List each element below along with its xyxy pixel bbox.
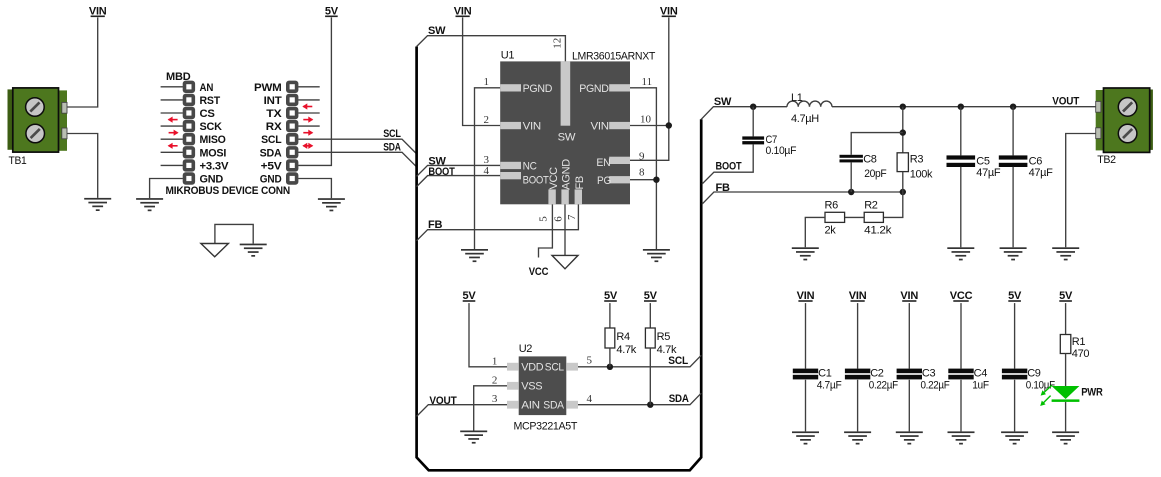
svg-text:SW: SW xyxy=(558,132,576,144)
wire C8 bottom to FB xyxy=(850,162,852,192)
wire 5V to R1 xyxy=(1065,303,1067,334)
power flag VIN (C2) xyxy=(849,290,867,302)
svg-text:R3: R3 xyxy=(910,154,924,166)
svg-text:C9: C9 xyxy=(1027,368,1041,380)
svg-text:0.22µF: 0.22µF xyxy=(921,379,951,391)
svg-text:CS: CS xyxy=(200,108,215,120)
arrow SCL/SDA red both xyxy=(302,143,313,149)
svg-text:2: 2 xyxy=(492,374,498,386)
wire net FB to U1 pin 7 xyxy=(417,204,579,240)
wire net SW top to U1 pin 12 xyxy=(417,36,566,62)
svg-text:C8: C8 xyxy=(863,154,877,166)
capacitor C6 xyxy=(999,155,1028,167)
svg-text:C6: C6 xyxy=(1029,155,1043,167)
svg-text:BOOT: BOOT xyxy=(716,161,742,173)
ground (C1) xyxy=(792,431,819,444)
wire TB1 pin 2 to ground xyxy=(67,134,98,198)
connector MIKROBUS DEVICE CONN right header xyxy=(286,81,298,185)
svg-text:47µF: 47µF xyxy=(976,167,1001,179)
wire net VOUT to U2 pin 3 AIN xyxy=(417,405,507,417)
svg-text:U1: U1 xyxy=(501,49,515,61)
arrow INT/TX red left xyxy=(302,103,312,109)
wire header-left pin MOSI xyxy=(161,151,183,153)
svg-text:3: 3 xyxy=(492,393,498,405)
svg-text:PWR: PWR xyxy=(1081,387,1103,399)
svg-text:7: 7 xyxy=(566,214,578,220)
wire header INT stub xyxy=(298,99,320,101)
svg-text:4: 4 xyxy=(484,165,490,177)
terminal block TB1 xyxy=(8,88,68,152)
ground (C9) xyxy=(1001,431,1028,444)
svg-text:4.7k: 4.7k xyxy=(616,344,636,356)
svg-text:4.7µF: 4.7µF xyxy=(817,379,842,391)
svg-text:VDD: VDD xyxy=(521,362,543,374)
svg-text:VOUT: VOUT xyxy=(1052,95,1079,107)
capacitor C7 xyxy=(742,136,764,144)
wire 5V to C9 xyxy=(1014,303,1016,369)
svg-text:SDA: SDA xyxy=(260,147,282,159)
capacitor C5 xyxy=(947,155,976,167)
svg-text:0.22µF: 0.22µF xyxy=(869,379,899,391)
svg-text:NC: NC xyxy=(523,161,537,173)
svg-text:RST: RST xyxy=(200,95,221,107)
junction C8 bottom xyxy=(848,189,854,195)
svg-text:MCP3221A5T: MCP3221A5T xyxy=(514,421,578,433)
wire U1 pin 10 VIN stub xyxy=(630,125,669,127)
wire C5 bottom to ground xyxy=(960,167,962,248)
power flag 5V (R5) xyxy=(644,290,658,302)
ground (C6) xyxy=(1000,247,1027,260)
earth ground (AGND) xyxy=(552,255,578,268)
svg-text:C1: C1 xyxy=(818,368,832,380)
svg-text:4: 4 xyxy=(587,393,593,405)
svg-text:VIN: VIN xyxy=(523,120,542,132)
svg-text:SCK: SCK xyxy=(200,121,223,133)
ground (LED) xyxy=(1052,431,1079,444)
svg-text:+3.3V: +3.3V xyxy=(200,160,230,172)
svg-text:PGND: PGND xyxy=(523,83,553,95)
wire U1 pin 8 PG stub xyxy=(630,179,656,181)
svg-text:C2: C2 xyxy=(870,368,884,380)
svg-text:1: 1 xyxy=(484,76,490,88)
arrow RX/SCL red right xyxy=(303,130,313,136)
ground (R6) xyxy=(792,247,819,260)
svg-text:SDA: SDA xyxy=(383,141,401,153)
power flag 5V (R4) xyxy=(604,290,618,302)
svg-text:+5V: +5V xyxy=(261,160,283,172)
svg-text:PGND: PGND xyxy=(579,83,609,95)
arrow SCK/MISO red right xyxy=(169,130,179,136)
svg-text:C4: C4 xyxy=(974,368,988,380)
svg-text:5: 5 xyxy=(587,355,593,367)
svg-text:L1: L1 xyxy=(791,92,803,104)
svg-text:41.2k: 41.2k xyxy=(864,224,892,236)
ground (U1 right) xyxy=(643,249,670,262)
ground (TB2) xyxy=(1052,247,1079,260)
wire net BOOT from border to C7 xyxy=(702,145,753,185)
capacitor C9 xyxy=(1002,369,1027,380)
TB2 screw 2 xyxy=(1118,124,1137,143)
capacitor C3 xyxy=(897,369,922,380)
resistor R4 xyxy=(605,328,615,348)
svg-text:R1: R1 xyxy=(1072,336,1086,348)
svg-text:EN: EN xyxy=(596,157,610,169)
wire C4 to ground xyxy=(960,380,962,432)
junction R3 bottom / FB xyxy=(900,189,906,195)
LED emission arrows xyxy=(1040,385,1052,406)
wire 5V to U2 pin 1 VDD xyxy=(469,303,507,367)
svg-text:VIN: VIN xyxy=(591,120,610,132)
IC U1 LMR36015ARNXT xyxy=(500,61,630,204)
svg-text:470: 470 xyxy=(1072,348,1090,360)
power flag VIN (U1) xyxy=(454,5,472,17)
svg-text:SW: SW xyxy=(714,96,732,108)
arrow MISO/MOSI red left xyxy=(168,143,178,149)
wire net SW out of border to L1 and VOUT xyxy=(701,107,787,120)
junction R5/SDA xyxy=(647,402,653,408)
svg-text:TB2: TB2 xyxy=(1097,154,1116,166)
svg-text:0.10µF: 0.10µF xyxy=(766,145,797,157)
wire VIN to C3 xyxy=(908,303,910,369)
wire SW to C8/R3 xyxy=(902,107,904,153)
wire U2 pin 5 SCL to border xyxy=(578,355,701,367)
board outline (click module boundary) xyxy=(417,47,702,471)
capacitor C8 xyxy=(840,155,863,163)
wire R4 to SCL xyxy=(609,348,611,367)
svg-text:PWM: PWM xyxy=(254,82,282,94)
wire C1 to ground xyxy=(805,380,807,432)
terminal block TB2 xyxy=(1096,88,1153,152)
svg-text:MIKROBUS DEVICE CONN: MIKROBUS DEVICE CONN xyxy=(166,185,291,197)
svg-text:RX: RX xyxy=(266,121,283,133)
wire VIN to C2 xyxy=(857,303,859,369)
svg-text:TB1: TB1 xyxy=(9,155,27,167)
resistor R3 xyxy=(897,153,908,172)
ground (U1 pin1) xyxy=(461,249,488,262)
junction R4/SCL xyxy=(607,364,613,370)
svg-text:VCC: VCC xyxy=(529,266,549,278)
svg-text:GND: GND xyxy=(260,174,282,186)
wire U2 pin 2 VSS to ground xyxy=(474,386,507,431)
svg-text:VIN: VIN xyxy=(660,5,678,17)
svg-text:AIN: AIN xyxy=(521,400,540,412)
svg-text:FB: FB xyxy=(428,219,443,231)
wire 5V to R5 xyxy=(649,303,651,328)
connector MIKROBUS DEVICE CONN left header xyxy=(183,81,195,185)
svg-text:C3: C3 xyxy=(922,368,936,380)
wire VCC to C4 xyxy=(960,303,962,369)
capacitor C4 xyxy=(948,369,973,380)
earth ground (triangle) xyxy=(201,244,229,257)
wire 5V to R4 xyxy=(609,303,611,328)
svg-text:GND: GND xyxy=(200,174,224,186)
power flag VIN (C3) xyxy=(900,290,918,302)
svg-text:6: 6 xyxy=(553,216,565,222)
svg-text:MOSI: MOSI xyxy=(200,147,227,159)
wire header-left pin RST xyxy=(161,99,183,101)
junction pin10/VIN xyxy=(666,122,672,128)
svg-text:9: 9 xyxy=(639,150,645,162)
ground (C4) xyxy=(948,431,975,444)
wire VIN to C1 xyxy=(805,303,807,369)
svg-text:2k: 2k xyxy=(825,224,837,236)
svg-text:2: 2 xyxy=(484,114,490,126)
svg-text:C5: C5 xyxy=(976,155,990,167)
svg-text:VOUT: VOUT xyxy=(429,395,457,407)
wire U1 pin 5 to VCC xyxy=(539,204,553,257)
wire header-left pin GND xyxy=(150,179,183,199)
svg-text:R6: R6 xyxy=(825,200,839,212)
junction C8 branch xyxy=(900,129,906,135)
svg-text:47µF: 47µF xyxy=(1029,167,1054,179)
LED PWR (green) xyxy=(1052,386,1080,402)
wire +5V to 5V flag xyxy=(298,17,331,165)
wire R2 to R6 xyxy=(845,216,865,218)
svg-text:MISO: MISO xyxy=(200,134,227,146)
ground (C2) xyxy=(844,431,871,444)
svg-text:VIN: VIN xyxy=(89,5,107,17)
TB2 screw 1 xyxy=(1118,98,1137,117)
junction C8/R3 top xyxy=(900,104,906,110)
svg-text:PG: PG xyxy=(597,175,611,187)
wire net SCL from header to border xyxy=(298,139,416,153)
power flag 5V (header) xyxy=(325,5,339,17)
svg-text:R2: R2 xyxy=(864,200,878,212)
wire VIN to TB1 pin 1 xyxy=(67,17,98,107)
wire header-left pin MISO xyxy=(161,138,183,140)
junction C5 xyxy=(958,104,964,110)
power flag 5V (C9) xyxy=(1008,290,1022,302)
wire header RX stub xyxy=(298,125,320,127)
wire header PWM stub xyxy=(298,86,320,88)
wire C5 xyxy=(960,107,962,156)
TB1 screw 2 xyxy=(26,124,45,143)
capacitor C2 xyxy=(845,369,870,380)
wire net FB from border to R3/R6 xyxy=(702,192,903,204)
svg-text:SW: SW xyxy=(428,25,446,37)
svg-text:SCL: SCL xyxy=(261,134,282,146)
svg-text:SDA: SDA xyxy=(543,400,564,412)
svg-text:R4: R4 xyxy=(616,331,630,343)
power flag VIN (C1) xyxy=(797,290,815,302)
power flag 5V (R1) xyxy=(1059,290,1073,302)
wire header GND to ground xyxy=(298,179,331,199)
wire C6 xyxy=(1012,107,1014,156)
power flag VIN (EN) xyxy=(660,5,678,17)
arrow TX/RX red right xyxy=(303,117,313,123)
resistor R2 xyxy=(864,212,883,222)
svg-text:BOOT: BOOT xyxy=(428,166,455,178)
wire TB2 pin 2 to ground xyxy=(1066,134,1096,248)
power flag VCC (C4) xyxy=(950,290,973,302)
wire C6 bottom to ground xyxy=(1012,167,1014,248)
inductor L1 xyxy=(787,101,832,107)
svg-text:FB: FB xyxy=(574,176,586,189)
TB1 screw 1 xyxy=(26,98,45,117)
svg-text:AGND: AGND xyxy=(561,159,573,190)
wire SW/VOUT rail xyxy=(832,106,1096,108)
svg-text:12: 12 xyxy=(551,38,563,49)
svg-text:FB: FB xyxy=(716,182,731,194)
junction C7 xyxy=(750,104,756,110)
svg-text:1: 1 xyxy=(492,355,498,367)
wire R1 to LED xyxy=(1065,354,1067,387)
junction C6 xyxy=(1010,104,1016,110)
svg-text:20pF: 20pF xyxy=(864,168,887,180)
svg-text:TX: TX xyxy=(266,108,282,120)
wire to C8 top xyxy=(851,133,903,155)
svg-text:1uF: 1uF xyxy=(972,379,989,391)
svg-text:SDA: SDA xyxy=(669,393,689,405)
power flag 5V (U2) xyxy=(462,290,476,302)
wire C2 to ground xyxy=(857,380,859,432)
wire VIN to U1 pin 2 xyxy=(463,17,501,125)
ground (header left) xyxy=(136,198,163,211)
wire U1 pin 6 AGND to earth xyxy=(564,204,566,255)
svg-text:SCL: SCL xyxy=(668,355,688,367)
svg-text:R5: R5 xyxy=(657,331,671,343)
svg-text:LMR36015ARNXT: LMR36015ARNXT xyxy=(572,50,656,62)
wire ground tie xyxy=(215,224,253,243)
svg-text:VSS: VSS xyxy=(521,381,542,393)
wire C3 to ground xyxy=(908,380,910,432)
svg-text:AN: AN xyxy=(200,82,214,94)
svg-text:VCC: VCC xyxy=(548,167,560,190)
svg-text:SCL: SCL xyxy=(545,362,564,374)
wire net SDA from header to border xyxy=(298,152,416,166)
junction pin8/PGND xyxy=(653,177,659,183)
wire U1 pin 11 PGND down xyxy=(630,88,656,249)
ground (C5) xyxy=(947,247,974,260)
wire VIN to U1 pin 9 EN xyxy=(630,17,669,160)
wire R5 to SDA xyxy=(649,348,651,405)
svg-text:8: 8 xyxy=(639,167,645,179)
svg-text:BOOT: BOOT xyxy=(523,174,550,186)
wire C9 to ground xyxy=(1014,380,1016,432)
svg-text:U2: U2 xyxy=(519,343,533,355)
svg-text:10: 10 xyxy=(640,114,652,126)
resistor R6 xyxy=(825,212,845,222)
wire net BOOT to U1 pin 4 xyxy=(417,176,501,187)
svg-text:4.7µH: 4.7µH xyxy=(791,113,819,125)
ground (header right) xyxy=(318,198,345,211)
svg-text:5: 5 xyxy=(538,216,550,222)
power flag VIN (input) xyxy=(89,5,107,17)
svg-text:VIN: VIN xyxy=(454,5,472,17)
wire U1 pin 1 PGND to ground xyxy=(475,88,501,249)
wire header-left pin +3.3V xyxy=(161,164,183,166)
svg-text:SCL: SCL xyxy=(383,128,401,140)
resistor R5 xyxy=(645,328,655,348)
IC U2 MCP3221A5T xyxy=(507,356,578,415)
wire header-left pin CS xyxy=(161,112,183,114)
wire header TX stub xyxy=(298,112,320,114)
wire header-left pin SCK xyxy=(161,125,183,127)
arrow CS/SCK red left xyxy=(168,117,178,123)
capacitor C1 xyxy=(793,369,818,380)
svg-text:4.7k: 4.7k xyxy=(657,344,677,356)
wire net SW to U1 pin 3 xyxy=(417,165,501,176)
wire header-left pin AN xyxy=(161,86,183,88)
wire R3 bottom through FB to R2 xyxy=(883,172,902,218)
resistor R1 xyxy=(1060,335,1071,354)
ground (U2) xyxy=(460,431,487,444)
wire R6 to ground xyxy=(805,217,825,247)
svg-text:INT: INT xyxy=(264,95,282,107)
ground (tie) xyxy=(240,244,267,257)
ground (C3) xyxy=(896,431,923,444)
wire U2 pin 4 SDA to border xyxy=(578,393,701,405)
wire LED to ground xyxy=(1065,402,1067,432)
ground (TB1) xyxy=(84,198,111,211)
svg-text:5V: 5V xyxy=(325,5,339,17)
wire C7 top xyxy=(752,107,754,137)
svg-text:11: 11 xyxy=(642,76,653,88)
svg-text:100k: 100k xyxy=(910,168,933,180)
